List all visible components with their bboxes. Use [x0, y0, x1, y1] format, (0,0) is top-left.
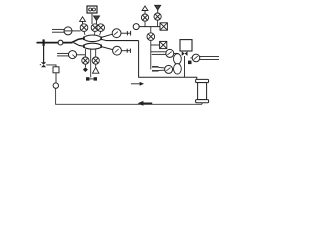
- lower flow element: [84, 43, 102, 49]
- inline gauge: [53, 83, 58, 88]
- sample lines right: [200, 56, 219, 59]
- down pipe and bottom header: [139, 41, 197, 80]
- upper flow element: [84, 35, 102, 42]
- vent valve V6: [92, 57, 99, 67]
- blind flange cap: [86, 77, 97, 80]
- inline fitting on pipe: [58, 40, 63, 45]
- inline body: [53, 67, 59, 73]
- header line: [139, 26, 160, 28]
- valve V9: [147, 27, 155, 70]
- vent funnel A2: [94, 16, 100, 24]
- valve V7: [141, 14, 148, 27]
- branch from V10: [46, 65, 56, 67]
- upper-left transmitter stub: [52, 27, 81, 35]
- solenoid triangle B1: [142, 6, 148, 14]
- vent tip triangle: [93, 67, 99, 73]
- return flow arrow: [138, 101, 153, 106]
- lower-left transmitter stub: [57, 51, 85, 59]
- filter bottom cap: [196, 100, 209, 103]
- filter body: [198, 83, 207, 100]
- gauge PI2: [190, 54, 199, 62]
- valve V3: [97, 24, 105, 32]
- drain valve V5: [82, 57, 89, 67]
- branch to box valve X2: [151, 44, 160, 46]
- connecting line: [55, 73, 57, 83]
- actuator box: [180, 40, 192, 51]
- regulator stem: [184, 56, 186, 77]
- upper sample stub: [151, 49, 179, 57]
- drain tip diamond: [83, 67, 88, 72]
- lower sample stub: [152, 65, 177, 73]
- valve V2: [91, 24, 99, 32]
- solenoid triangle A1: [80, 17, 86, 25]
- drain valve V10: [40, 46, 46, 67]
- filter top cap: [196, 79, 209, 82]
- vent funnel B2: [155, 5, 161, 13]
- valve V1: [80, 24, 88, 32]
- regulator valve bowtie: [182, 51, 188, 56]
- valve stems to flow element: [84, 31, 101, 35]
- pump oval upper: [174, 54, 182, 64]
- fork to flow elements: [72, 38, 84, 46]
- instrument box PI1: [87, 6, 97, 13]
- drain legs: [85, 49, 95, 77]
- signal line from PI1: [91, 14, 93, 24]
- main inlet pipe: [37, 39, 73, 46]
- header end circle: [133, 24, 139, 30]
- flow arrow right: [131, 82, 144, 86]
- gauge TI1: [101, 29, 130, 38]
- pump oval lower: [174, 64, 182, 74]
- return pipe: [56, 88, 202, 104]
- valve V8: [154, 13, 161, 27]
- filter stem: [201, 103, 203, 105]
- coupling square: [188, 61, 192, 65]
- box valve X1: [160, 23, 167, 30]
- junction dots: [83, 37, 102, 48]
- box valve X2: [160, 41, 167, 48]
- main pipe to right: [101, 39, 138, 40]
- gauge TI2: [101, 46, 130, 55]
